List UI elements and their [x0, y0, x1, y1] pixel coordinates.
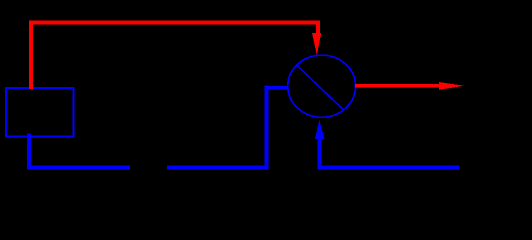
- wire blue return rail left segment: [27, 165, 130, 169]
- boiler B1: [6, 88, 73, 137]
- wire red supply out of valve: [355, 84, 441, 88]
- wire blue riser to valve left port: [265, 86, 269, 170]
- mixing valve V1 body: [288, 55, 356, 117]
- arrowhead blue into valve bottom: [315, 120, 325, 140]
- wire blue riser to valve bottom: [317, 137, 321, 169]
- wire blue boiler return drop: [27, 134, 31, 170]
- wire blue return rail right segment: [317, 165, 459, 169]
- wire blue return rail mid segment: [167, 165, 269, 169]
- arrowhead red into valve top: [312, 33, 321, 55]
- wire red supply rail top horizontal: [29, 21, 320, 25]
- wire blue valve left port horizontal: [265, 86, 289, 90]
- wire red drop to valve: [316, 21, 320, 35]
- arrowhead red supply to load: [439, 82, 464, 90]
- wire red drop to boiler: [29, 21, 33, 89]
- pump P1 (black on black, not visible): [0, 0, 1, 1]
- mixing valve V1 diagonal: [297, 66, 343, 110]
